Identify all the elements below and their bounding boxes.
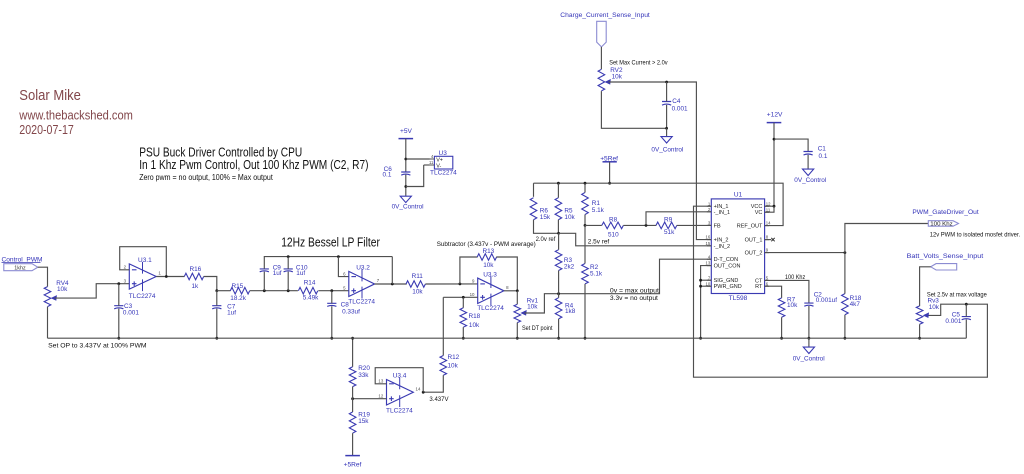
port Batt_Volts_Sense_Input: [931, 264, 957, 270]
junction feedback/out: [165, 275, 168, 278]
IC U1 TL598: [706, 192, 772, 302]
wire R1 bottom lead: [584, 215, 586, 226]
junction R7/rail: [780, 337, 783, 340]
junction -in tap: [337, 255, 340, 258]
svg-text:R8: R8: [609, 216, 618, 223]
svg-text:U3: U3: [439, 150, 448, 157]
wire R3 to R4: [558, 271, 560, 294]
resistor R4: [555, 298, 575, 319]
junction R20/rail: [351, 337, 354, 340]
wire +5Ref rail to U1 REF_OUT: [534, 183, 784, 225]
junction PWR_GND: [699, 285, 702, 288]
resistor R19: [349, 412, 370, 434]
svg-text:13: 13: [378, 379, 383, 384]
wire +5V to C6: [405, 139, 407, 172]
svg-text:R15: R15: [232, 283, 244, 290]
op-amp U3.4: [378, 372, 421, 414]
resistor R3: [555, 250, 574, 271]
wire ground stub: [808, 338, 810, 347]
svg-text:R18: R18: [469, 313, 481, 320]
svg-text:2.0v ref: 2.0v ref: [536, 236, 556, 243]
svg-text:Set OP to 3.437V at 100% PWM: Set OP to 3.437V at 100% PWM: [48, 343, 147, 350]
svg-text:10k: 10k: [527, 304, 538, 311]
svg-text:R16: R16: [190, 266, 202, 273]
wire U1 pin1 to RV3 wiper: [694, 206, 988, 377]
svg-text:OUT_2: OUT_2: [745, 251, 763, 257]
junction R8/R9/pin2: [645, 224, 648, 227]
svg-text:Set Max Current > 2.0v: Set Max Current > 2.0v: [609, 59, 668, 66]
junction C9 bottom: [263, 289, 266, 292]
svg-text:0.001: 0.001: [672, 105, 688, 112]
junction C4 bottom/ground: [665, 127, 668, 130]
wire R20 top to rail: [352, 338, 354, 367]
wire R1/R2 link: [584, 225, 586, 263]
wire R19 to +5Ref: [352, 433, 354, 455]
svg-text:10k: 10k: [929, 304, 940, 311]
wire C9 bottom lead: [263, 272, 265, 291]
svg-text:10k: 10k: [469, 322, 480, 329]
svg-text:13: 13: [706, 261, 711, 266]
power +12V: [767, 112, 783, 123]
wire R5 top lead: [557, 183, 559, 198]
wire +12V down to U1 VCC: [773, 123, 775, 207]
svg-text:14: 14: [766, 221, 771, 226]
wire port to RV3: [920, 267, 931, 306]
svg-text:RT: RT: [755, 284, 763, 290]
svg-text:10k: 10k: [483, 262, 494, 269]
wire C1 to ground: [807, 155, 809, 169]
wire PWR_GND: [701, 285, 712, 287]
op-amp U3.2: [343, 264, 380, 305]
wire C10 top lead: [287, 257, 289, 269]
svg-text:D-T_CON: D-T_CON: [714, 257, 738, 263]
wire VC to VCC: [765, 206, 774, 212]
wire to U3 V+: [406, 158, 430, 160]
svg-text:10k: 10k: [564, 214, 575, 221]
wire RV1 wiper to U1 pin4: [525, 259, 712, 313]
svg-text:TLC2274: TLC2274: [348, 299, 375, 306]
svg-text:12: 12: [378, 394, 383, 399]
svg-text:R13: R13: [483, 248, 495, 255]
junction +in/C3: [117, 282, 120, 285]
wire node to R15: [217, 290, 231, 292]
svg-text:51k: 51k: [664, 229, 675, 236]
svg-text:0.001: 0.001: [945, 318, 961, 325]
capacitor C7: [212, 304, 236, 317]
port Control_PWM 1khz: [4, 264, 38, 272]
svg-text:0.1: 0.1: [819, 153, 828, 160]
wire C4 top lead: [666, 82, 668, 102]
resistor R11: [406, 273, 425, 295]
svg-text:Charge_Current_Sense_Input: Charge_Current_Sense_Input: [560, 12, 650, 19]
capacitor C1: [804, 145, 828, 160]
svg-text:15k: 15k: [540, 214, 551, 221]
junction R4/rail: [557, 337, 560, 340]
svg-text:0.33uf: 0.33uf: [342, 308, 360, 315]
junction U3.4 out: [422, 391, 425, 394]
junction C8 top: [330, 289, 333, 292]
wire R15 to R14: [250, 290, 298, 292]
svg-text:+12V: +12V: [767, 112, 783, 119]
wire R14 to U3.2 +in: [318, 290, 349, 292]
svg-text:OUT_1: OUT_1: [745, 238, 763, 244]
svg-text:12: 12: [766, 201, 771, 206]
capacitor C9: [260, 264, 282, 277]
wire RV2 bottom to C4 bottom: [601, 91, 666, 128]
svg-text:Set DT point: Set DT point: [522, 325, 553, 332]
svg-text:5.1k: 5.1k: [592, 207, 605, 214]
junction wiper/C4 top: [665, 81, 668, 84]
wire R6 top lead: [533, 183, 535, 197]
svg-text:+5Ref: +5Ref: [344, 462, 362, 469]
wire U3.4 feedback: [375, 368, 423, 393]
power +5Ref bottom: [344, 456, 362, 469]
resistor R18 4k7: [842, 294, 862, 315]
svg-text:12v PWM to isolated mosfet dri: 12v PWM to isolated mosfet driver.: [930, 231, 1021, 238]
wire C3 top lead: [118, 284, 120, 306]
svg-text:15: 15: [706, 241, 711, 246]
wire to ground stub: [666, 128, 668, 136]
svg-text:Batt_Volts_Sense_Input: Batt_Volts_Sense_Input: [907, 253, 984, 260]
wire OUT_CON to ground: [701, 266, 712, 339]
svg-text:5.1k: 5.1k: [590, 270, 603, 277]
wire to U3 V-: [424, 164, 430, 166]
svg-text:+5V: +5V: [400, 128, 413, 135]
wire C7 top lead: [216, 291, 218, 306]
wire rail to U3.2 -in: [338, 257, 348, 277]
svg-text:11: 11: [766, 207, 771, 212]
svg-text:C1: C1: [818, 145, 827, 152]
svg-text:U1: U1: [734, 192, 743, 199]
resistor R16: [184, 266, 203, 290]
svg-text:V-: V-: [436, 163, 441, 169]
junction R1 top: [584, 182, 587, 185]
wire U3.3 out: [504, 290, 517, 292]
svg-text:5.49k: 5.49k: [303, 294, 319, 301]
svg-text:0.1: 0.1: [383, 172, 392, 179]
svg-text:10k: 10k: [448, 362, 459, 369]
wire R18 bottom lead: [462, 327, 464, 338]
wire C8 top lead: [331, 291, 333, 304]
junction 2.5v ref node: [584, 224, 587, 227]
capacitor C2: [804, 291, 837, 306]
wire R5 bottom lead: [557, 220, 559, 234]
junction R15/C7: [215, 289, 218, 292]
wire OUT_2 to PWM port: [845, 224, 928, 253]
wire R8 to R9: [623, 224, 656, 226]
wire R1 top lead: [584, 183, 586, 192]
junction R4 tap: [557, 292, 560, 295]
resistor R9: [656, 216, 677, 236]
op-amp U3.3: [470, 271, 509, 312]
wire RV4 wiper to U3.1 +in: [55, 284, 130, 298]
svg-text:3.437V: 3.437V: [429, 396, 449, 403]
wire R3 top lead: [558, 233, 560, 249]
junction R13 leg: [459, 283, 462, 286]
wire rail right leg: [391, 257, 393, 284]
wire to C1: [774, 139, 808, 151]
junction gnd/rail: [699, 337, 702, 340]
svg-text:TL598: TL598: [729, 295, 748, 302]
svg-text:4k7: 4k7: [850, 301, 861, 308]
svg-text:Solar Mike: Solar Mike: [19, 88, 81, 104]
svg-text:+IN_2: +IN_2: [714, 238, 729, 244]
junction VCC/+12V: [773, 205, 776, 208]
wire RV2 wiper to U1 pin16: [609, 82, 712, 240]
svg-text:10k: 10k: [787, 302, 798, 309]
wire R12 to U3.4 out: [423, 375, 443, 392]
svg-text:0.001uf: 0.001uf: [816, 297, 838, 304]
wire U3.1 feedback: [120, 247, 167, 277]
svg-text:10k: 10k: [412, 289, 423, 296]
resistor R1: [582, 193, 605, 215]
wire R7 bottom to rail: [781, 317, 783, 338]
svg-text:OUT_CON: OUT_CON: [714, 264, 741, 270]
svg-text:10: 10: [470, 292, 475, 297]
svg-text:0V_Control: 0V_Control: [651, 146, 683, 153]
resistor R20: [349, 365, 370, 386]
svg-text:TLC2274: TLC2274: [386, 408, 413, 415]
junction C10 bottom: [287, 289, 290, 292]
junction SIG_GND: [699, 279, 702, 282]
wire C3 bottom lead: [118, 309, 120, 339]
resistor R12: [440, 354, 460, 375]
wire R9 to U1 FB: [677, 224, 712, 226]
junction C8/rail: [330, 337, 333, 340]
underline Control_PWM: [2, 262, 41, 264]
wire port to RV4: [38, 267, 48, 286]
ground 0V_Control under C1: [794, 169, 826, 184]
junction R2/rail: [584, 337, 587, 340]
svg-text:10k: 10k: [57, 286, 68, 293]
wire OUT_2: [765, 252, 845, 254]
svg-text:VC: VC: [755, 210, 763, 216]
svg-text:In 1 Khz Pwm Control, Out 100: In 1 Khz Pwm Control, Out 100 Khz PWM (C…: [139, 157, 368, 172]
potentiometer RV2: [598, 67, 623, 91]
svg-text:REF_OUT: REF_OUT: [737, 224, 763, 230]
junction R5 top: [557, 182, 560, 185]
svg-text:510: 510: [608, 231, 619, 238]
wire R13 to out node: [496, 257, 517, 291]
wire C4 bottom lead: [666, 105, 668, 128]
junction 2.0v ref node: [557, 232, 560, 235]
svg-text:15k: 15k: [358, 418, 369, 425]
wire 0V rail: [48, 337, 967, 339]
ground 0V_Control under C4: [651, 137, 683, 154]
wire R11 to U3.3 -in: [425, 283, 477, 285]
svg-text:2.5v ref: 2.5v ref: [588, 238, 610, 245]
wire C5 bottom lead: [965, 320, 967, 339]
svg-text:16: 16: [706, 235, 711, 240]
svg-text:U3.3: U3.3: [483, 271, 497, 278]
junction out/RV1: [516, 289, 519, 292]
wire R19 top lead: [352, 399, 354, 412]
wire R2 bottom to rail: [584, 284, 586, 338]
power +5V: [399, 128, 414, 139]
capacitor C6: [383, 166, 411, 179]
wire RV1 top lead: [516, 291, 518, 304]
capacitor C4: [662, 98, 688, 113]
wire U3.4 +in: [353, 398, 387, 400]
svg-text:R14: R14: [304, 280, 316, 287]
wire C7 bottom lead: [216, 309, 218, 339]
svg-text:PWR_GND: PWR_GND: [714, 284, 742, 290]
capacitor C8: [327, 302, 360, 316]
wire R6 bottom to 2.0v node: [534, 220, 559, 234]
junction +5Ref/rail: [608, 182, 611, 185]
wire C10 bottom lead: [287, 272, 289, 291]
svg-text:2020-07-17: 2020-07-17: [19, 123, 74, 137]
wire to U1 pin2: [646, 212, 711, 226]
resistor R14: [298, 280, 319, 302]
svg-text:0V_Control: 0V_Control: [793, 355, 825, 362]
junction C1 tap: [773, 138, 776, 141]
svg-text:1uf: 1uf: [227, 310, 236, 317]
wire U3.1 out to R16: [156, 276, 184, 278]
svg-text:U3.2: U3.2: [356, 264, 370, 271]
junction C5 top: [965, 303, 968, 306]
svg-text:FB: FB: [714, 223, 721, 229]
resistor R13: [477, 248, 496, 269]
svg-text:2k2: 2k2: [564, 263, 575, 270]
wire CT to C2: [765, 280, 809, 303]
svg-text:www.thebackshed.com: www.thebackshed.com: [18, 108, 132, 122]
ground 0V_Control under rail: [793, 347, 825, 362]
svg-text:U3.4: U3.4: [393, 372, 407, 379]
ground 0V_Control under C6: [392, 196, 424, 210]
wire U3.2 out to R11: [375, 283, 407, 285]
wire RV4 bottom to rail: [47, 307, 49, 339]
svg-text:TLC2274: TLC2274: [430, 170, 457, 177]
svg-text:R9: R9: [664, 216, 673, 223]
wire C8 bottom lead: [331, 306, 333, 338]
potentiometer RV3: [916, 298, 940, 325]
junction RV1/rail: [516, 337, 519, 340]
svg-text:14: 14: [416, 386, 421, 391]
junction R18/rail: [462, 337, 465, 340]
svg-text:3.3v = no output: 3.3v = no output: [610, 295, 658, 302]
svg-text:1k: 1k: [192, 283, 200, 290]
wire +5Ref stub: [609, 162, 611, 183]
svg-text:100 Khz: 100 Khz: [930, 222, 953, 228]
wire RT to R7: [765, 286, 782, 298]
wire R4 bottom to rail: [558, 319, 560, 338]
svg-text:1khz: 1khz: [14, 266, 26, 272]
svg-text:1uf: 1uf: [273, 270, 282, 277]
svg-text:18.2k: 18.2k: [230, 295, 246, 302]
resistor R7: [778, 297, 798, 318]
svg-text:C4: C4: [672, 98, 681, 105]
wire C6 to ground: [405, 175, 407, 197]
junction C10 top: [287, 255, 290, 258]
resistor R8: [602, 216, 624, 238]
svg-text:TLC2274: TLC2274: [477, 305, 504, 312]
svg-text:10: 10: [706, 281, 711, 286]
resistor R6: [530, 198, 551, 222]
no-connect OUT_1: [765, 238, 775, 241]
svg-text:1k8: 1k8: [565, 308, 576, 315]
svg-text:R11: R11: [412, 273, 424, 280]
wire 2.5v ref to R8: [585, 224, 602, 226]
svg-text:0v = max output: 0v = max output: [610, 287, 659, 294]
svg-text:PWM_GateDriver_Out: PWM_GateDriver_Out: [912, 209, 978, 216]
wire RV3 bottom to rail: [919, 324, 921, 338]
wire SIG_GND: [701, 279, 712, 281]
resistor R2: [582, 264, 603, 284]
svg-text:100 Khz: 100 Khz: [785, 274, 805, 281]
svg-text:0V_Control: 0V_Control: [392, 204, 424, 211]
junction C3/rail: [117, 337, 120, 340]
junction OUT_2 node: [844, 251, 847, 254]
junction C2/rail/gnd: [808, 337, 811, 340]
wire U3.3 +in line: [443, 296, 477, 298]
potentiometer RV1: [514, 297, 539, 322]
op-amp U3.1: [124, 257, 162, 300]
svg-text:TLC2274: TLC2274: [129, 293, 156, 300]
capacitor C5: [945, 312, 971, 326]
junction C7/rail: [215, 337, 218, 340]
wire R18 top lead: [462, 297, 464, 308]
wire C2 bottom to rail: [808, 306, 810, 338]
wire R4 top lead: [558, 294, 560, 298]
wire C9 top to feedback rail: [264, 257, 392, 269]
svg-text:R12: R12: [448, 354, 460, 361]
junction out/rail: [391, 283, 394, 286]
svg-text:Zero pwm = no output, 100% = M: Zero pwm = no output, 100% = Max output: [139, 173, 273, 182]
wire R20 bottom lead: [352, 387, 354, 399]
svg-text:33k: 33k: [358, 372, 369, 379]
svg-text:0.001: 0.001: [123, 310, 139, 317]
potentiometer RV4: [44, 280, 69, 307]
junction C6/V+ node: [404, 158, 407, 161]
svg-text:-_IN_2: -_IN_2: [714, 244, 731, 250]
resistor R15: [230, 283, 249, 302]
wire RV1 bottom lead: [516, 323, 518, 339]
port Charge_Current_Sense_Input: [597, 21, 607, 47]
junction R18 top: [462, 296, 465, 299]
resistor R18 10k: [460, 308, 481, 329]
svg-text:12Hz Bessel LP Filter: 12Hz Bessel LP Filter: [281, 235, 380, 250]
capacitor C3: [114, 303, 139, 316]
power +5Ref top: [600, 156, 618, 163]
wire up to R13: [460, 257, 478, 284]
svg-text:1uf: 1uf: [296, 270, 305, 277]
wire R18b bottom lead: [844, 315, 846, 338]
wire V- down to ground node: [406, 165, 424, 187]
svg-text:U3.1: U3.1: [138, 257, 152, 264]
junction R20/R19: [351, 397, 354, 400]
wire R12 top leg: [442, 297, 444, 355]
wire R18b top leg: [844, 253, 846, 294]
capacitor C10: [284, 264, 308, 277]
svg-text:11: 11: [429, 160, 434, 165]
op-amp U3 power part: [429, 150, 457, 177]
wire port to RV2: [600, 47, 602, 69]
port PWM_GateDriver_Out 100 Khz: [928, 221, 958, 228]
svg-text:10k: 10k: [612, 74, 623, 81]
wire R16 to node: [204, 277, 217, 291]
svg-text:0V_Control: 0V_Control: [794, 177, 826, 184]
svg-text:-_IN_1: -_IN_1: [714, 210, 731, 216]
wire VCC: [765, 205, 774, 207]
wire 2.0v ref to U1 pin15: [559, 233, 712, 246]
junction C6/V- node: [404, 185, 407, 188]
resistor R5: [555, 198, 575, 222]
junction R18b/rail: [844, 337, 847, 340]
wire C5 top lead: [965, 304, 967, 316]
junction RV3/rail: [918, 337, 921, 340]
